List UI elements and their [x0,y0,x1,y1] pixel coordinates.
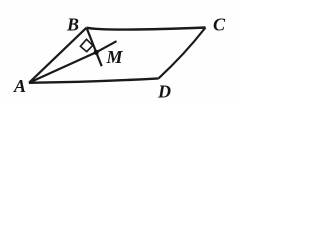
side BC [87,28,206,30]
side CD [159,28,206,79]
svg-text:B: B [66,15,79,35]
svg-text:M: M [106,47,124,67]
right-angle marker at M [80,39,92,51]
svg-text:A: A [13,76,26,96]
segment BM extended [87,28,102,66]
svg-text:C: C [213,15,226,35]
segment AM extended [29,41,117,83]
side DA [29,78,159,82]
node M dot [94,50,99,55]
side AB [29,28,87,83]
svg-text:D: D [157,82,171,102]
